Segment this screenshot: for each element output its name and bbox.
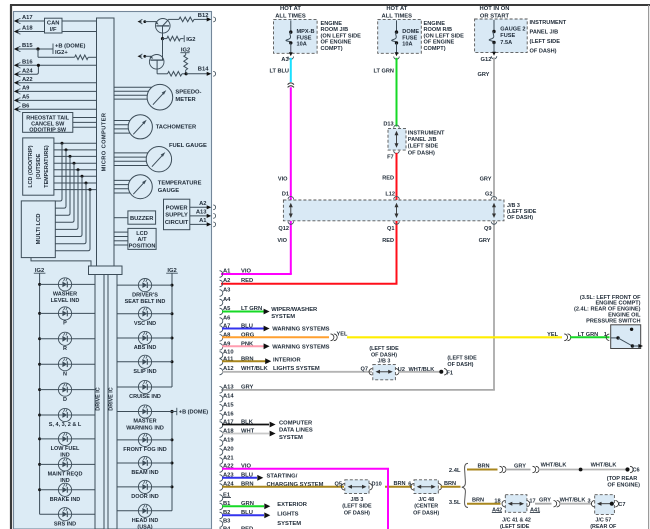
wire A9 to micro computer xyxy=(19,90,97,92)
wire VIO down to J/B 3 xyxy=(290,87,292,200)
svg-text:B14: B14 xyxy=(198,66,209,72)
svg-text:A22: A22 xyxy=(22,77,33,83)
svg-text:Q9: Q9 xyxy=(484,226,491,232)
svg-text:R: R xyxy=(63,346,67,352)
svg-text:(LEFT SIDE: (LEFT SIDE xyxy=(447,355,477,361)
inline connector chevrons xyxy=(288,83,294,85)
svg-text:A9: A9 xyxy=(22,86,30,92)
svg-text:BRN: BRN xyxy=(472,498,484,504)
splice F1 xyxy=(439,370,443,374)
svg-text:OF ENGINE: OF ENGINE xyxy=(321,40,352,46)
svg-text:(ON LEFT SIDE: (ON LEFT SIDE xyxy=(424,33,465,39)
transistor Q1 xyxy=(156,19,171,34)
svg-text:TEMPERATURE): TEMPERATURE) xyxy=(44,145,50,188)
svg-text:GAUGE: GAUGE xyxy=(158,188,179,194)
indicator LED SRS IND xyxy=(40,513,59,515)
svg-text:ROOM J/B: ROOM J/B xyxy=(321,27,349,33)
svg-text:OF ENGINE: OF ENGINE xyxy=(424,40,455,46)
svg-text:10A: 10A xyxy=(402,41,412,47)
svg-text:OF DASH): OF DASH) xyxy=(507,215,533,221)
engine room R/B box (fuse DOME) xyxy=(378,19,422,53)
svg-text:IG2: IG2 xyxy=(186,37,195,43)
svg-text:A17: A17 xyxy=(22,15,33,21)
indicator LED VSC IND xyxy=(171,312,174,315)
svg-text:RED: RED xyxy=(382,176,394,182)
svg-text:ODO/TRIP SW: ODO/TRIP SW xyxy=(29,127,67,133)
wire A8 ORG xyxy=(222,336,329,338)
svg-text:OF DASH): OF DASH) xyxy=(408,150,435,156)
wire B2 BLU xyxy=(222,514,264,516)
svg-text:SYSTEM: SYSTEM xyxy=(277,521,301,527)
svg-text:POWER: POWER xyxy=(166,205,189,211)
indicator LED S, 4, 3, 2 & L xyxy=(38,414,41,417)
svg-text:WARNING SYSTEMS: WARNING SYSTEMS xyxy=(272,345,329,351)
wire MULTI LCD output 2 xyxy=(55,150,66,208)
svg-text:S, 4, 3, 2 & L: S, 4, 3, 2 & L xyxy=(49,422,82,428)
node LCD bus junction 1 xyxy=(61,142,64,145)
svg-text:LT GRN: LT GRN xyxy=(578,332,598,338)
node LCD bus junction 7 xyxy=(85,182,88,185)
wire GRY from fuse GAUGE 2 xyxy=(493,57,495,200)
wire RED through J/B 3 to pin A2 xyxy=(396,221,398,284)
resistor R2 (IG2) xyxy=(167,36,181,41)
svg-text:GRY: GRY xyxy=(514,464,526,470)
svg-text:WHT/BLK: WHT/BLK xyxy=(591,463,617,469)
wire A24 BRN to J/B 3 (Q5) xyxy=(222,486,344,488)
wires micro computer to TACHOMETER gauge xyxy=(114,120,140,122)
svg-text:LT BLU: LT BLU xyxy=(270,68,289,74)
svg-text:A21: A21 xyxy=(223,456,234,462)
wire LT BLU from fuse MPX-B xyxy=(290,58,292,82)
wire MULTI LCD output 5 xyxy=(55,170,78,230)
svg-text:J/C 57: J/C 57 xyxy=(595,517,611,523)
svg-text:Q1: Q1 xyxy=(387,226,394,232)
resistor on B15 branch xyxy=(75,55,89,60)
indicator LED N xyxy=(38,363,41,366)
svg-text:Q7: Q7 xyxy=(361,366,368,372)
wire LCD output 6 to micro computer xyxy=(54,175,97,177)
svg-text:CRUISE IND: CRUISE IND xyxy=(129,394,161,400)
gauge TACHOMETER xyxy=(128,115,152,139)
node LCD bus junction 5 xyxy=(77,168,80,171)
svg-text:MASTER: MASTER xyxy=(133,419,156,425)
wire WHT/BLK to ground point F1 xyxy=(398,371,440,373)
svg-text:A16: A16 xyxy=(223,412,234,418)
wire A11 BRN to interior lights system xyxy=(222,360,266,362)
indicator LED MAINT REQD IND xyxy=(38,463,41,466)
svg-text:WHT/BLK: WHT/BLK xyxy=(560,497,586,503)
svg-text:VSC IND: VSC IND xyxy=(134,321,156,327)
wire RED to J/B 3 xyxy=(396,153,398,200)
svg-text:ABS IND: ABS IND xyxy=(134,345,157,351)
svg-text:OR START: OR START xyxy=(480,13,510,19)
wire MULTI LCD output 8 xyxy=(55,190,90,251)
wires rheostat box to micro computer xyxy=(73,117,97,119)
J/B 3 pass-through pins xyxy=(491,197,497,200)
svg-text:RED: RED xyxy=(241,278,253,284)
svg-text:F1: F1 xyxy=(447,370,454,376)
indicator LED DOOR IND xyxy=(171,485,174,488)
svg-text:D: D xyxy=(63,397,67,403)
wire LCD output 5 to micro computer xyxy=(54,169,97,171)
svg-text:A20: A20 xyxy=(223,447,234,453)
fuse MPX-B 10A xyxy=(290,20,292,32)
svg-text:DOOR IND: DOOR IND xyxy=(131,494,159,500)
svg-text:SRS IND: SRS IND xyxy=(54,521,76,527)
svg-text:D13: D13 xyxy=(383,121,393,127)
svg-text:A2: A2 xyxy=(199,201,206,207)
wire CAN I/F to micro computer (A18) xyxy=(62,31,97,33)
svg-text:P: P xyxy=(63,321,67,327)
svg-text:(LEFT SIDE: (LEFT SIDE xyxy=(500,524,530,529)
svg-text:(LEFT SIDE: (LEFT SIDE xyxy=(369,346,399,352)
fuse DOME 10A xyxy=(396,20,398,32)
wire A7 BLU to warning systems xyxy=(222,328,264,330)
LCD (ODO/TRIP)(OUTSIDE TEMPERATURE) box xyxy=(23,138,54,195)
wire LCD output 1 to micro computer xyxy=(54,142,97,144)
svg-text:18: 18 xyxy=(494,498,500,504)
svg-text:A15: A15 xyxy=(223,402,234,408)
power supply circuit box xyxy=(164,199,190,230)
svg-text:BRN: BRN xyxy=(444,481,456,487)
wires micro computer to LCD A/T position xyxy=(114,231,128,233)
svg-text:(ON LEFT SIDE: (ON LEFT SIDE xyxy=(321,33,362,39)
resistor R4 vertical from IG2 xyxy=(185,53,187,55)
svg-text:F7: F7 xyxy=(387,154,394,160)
svg-text:CIRCUIT: CIRCUIT xyxy=(165,220,189,226)
wire B1 GRN to exterior lights system xyxy=(222,505,264,507)
svg-text:(USA): (USA) xyxy=(137,525,152,529)
bus IG2 left column xyxy=(39,273,41,514)
wire LT GRN from fuse DOME xyxy=(396,58,398,127)
splice xyxy=(579,468,583,472)
indicator LED P xyxy=(38,312,41,315)
instrument panel J/B box (fuse GAUGE 2) xyxy=(475,19,528,53)
wire A5 LT GRN to wiper/washer system xyxy=(222,311,264,313)
svg-text:HOT AT: HOT AT xyxy=(280,6,301,12)
svg-text:DATA LINES: DATA LINES xyxy=(279,428,313,434)
svg-text:A1: A1 xyxy=(223,269,231,275)
indicator LED R xyxy=(38,337,41,340)
wire A22 VIO overdraw at brown crossing xyxy=(387,469,389,529)
svg-text:BRN: BRN xyxy=(477,464,489,470)
svg-text:N: N xyxy=(63,371,67,377)
indicator LED FRONT FOG IND xyxy=(171,438,174,441)
svg-text:A5: A5 xyxy=(22,95,30,101)
svg-text:A4: A4 xyxy=(223,297,231,303)
connector bar below micro computer xyxy=(89,266,123,275)
svg-text:J/B 3: J/B 3 xyxy=(350,497,363,503)
svg-text:I/F: I/F xyxy=(50,27,57,33)
svg-text:GRY: GRY xyxy=(241,385,253,391)
svg-text:A/T: A/T xyxy=(137,237,147,243)
wire LCD output 2 to micro computer xyxy=(54,149,97,151)
wire LCD output 3 to micro computer xyxy=(54,155,97,157)
drive IC bar right xyxy=(108,275,117,529)
inline connector xyxy=(564,334,567,341)
micro computer U1 xyxy=(97,18,115,266)
J/C 57 connector xyxy=(591,501,594,507)
gauge FUEL GAUGE xyxy=(146,147,171,172)
svg-text:EXTERIOR: EXTERIOR xyxy=(277,502,307,508)
IG2 terminal tick xyxy=(183,35,185,42)
svg-text:FUEL GAUGE: FUEL GAUGE xyxy=(169,143,207,149)
svg-text:TEMPERATURE: TEMPERATURE xyxy=(158,181,202,187)
resistor R1 (B12) xyxy=(179,17,194,22)
svg-text:J/C 41 & 42: J/C 41 & 42 xyxy=(502,517,531,523)
svg-text:ALL TIMES: ALL TIMES xyxy=(275,13,306,19)
svg-text:(LEFT SIDE: (LEFT SIDE xyxy=(342,504,372,510)
svg-text:ALL TIMES: ALL TIMES xyxy=(382,13,413,19)
drive IC bar left xyxy=(95,275,104,529)
svg-text:COMPUTER: COMPUTER xyxy=(279,420,313,426)
svg-text:HOT IN ON: HOT IN ON xyxy=(480,6,510,12)
ground point C6 xyxy=(625,467,629,471)
svg-text:D1: D1 xyxy=(282,192,289,198)
svg-text:(REAR OF: (REAR OF xyxy=(590,524,617,529)
svg-text:GAUGE 2: GAUGE 2 xyxy=(500,27,525,33)
svg-text:(2.4L: REAR OF ENGINE): (2.4L: REAR OF ENGINE) xyxy=(574,306,641,312)
wire LCD output 7 to micro computer xyxy=(54,182,97,184)
svg-text:TACHOMETER: TACHOMETER xyxy=(156,125,197,131)
svg-text:LT GRN: LT GRN xyxy=(374,68,394,74)
svg-text:A10: A10 xyxy=(223,350,234,356)
svg-text:SEAT BELT IND: SEAT BELT IND xyxy=(125,299,166,305)
wire Q1 collector to resistor xyxy=(168,18,179,20)
wire B16 to micro computer xyxy=(19,64,97,66)
svg-text:FUSE: FUSE xyxy=(500,33,515,39)
svg-text:MULTI LCD: MULTI LCD xyxy=(36,214,42,245)
svg-text:G12: G12 xyxy=(481,57,492,63)
svg-text:RED: RED xyxy=(382,238,394,244)
svg-text:STARTING/: STARTING/ xyxy=(267,473,298,479)
wire BRN (3.5L) xyxy=(467,503,501,505)
svg-text:OF DASH): OF DASH) xyxy=(447,362,473,368)
svg-text:GRY: GRY xyxy=(480,176,492,182)
wire A24 joins B16 xyxy=(19,65,39,74)
wire CAN I/F to micro computer (A17) xyxy=(62,20,97,22)
node LCD bus junction 3 xyxy=(69,155,72,158)
LCD A/T position box xyxy=(128,228,156,249)
svg-text:Q5: Q5 xyxy=(335,481,342,487)
indicator LED SLIP IND xyxy=(171,360,174,363)
svg-text:VIO: VIO xyxy=(277,238,287,244)
svg-text:OF DASH): OF DASH) xyxy=(344,510,370,516)
J/C 48 connector xyxy=(411,484,414,490)
indicator LED ABS IND xyxy=(171,337,174,340)
wire BRN to J/C 48 xyxy=(385,486,412,488)
svg-text:YEL: YEL xyxy=(547,332,558,338)
MULTI LCD box xyxy=(21,201,55,258)
svg-text:D10: D10 xyxy=(372,481,382,487)
buzzer xyxy=(128,211,156,224)
CAN I/F interface box xyxy=(45,18,63,33)
node LCD bus junction 6 xyxy=(81,175,84,178)
svg-text:HOT AT: HOT AT xyxy=(386,6,407,12)
bus IG2 right column xyxy=(171,273,173,387)
svg-text:OF DASH): OF DASH) xyxy=(530,48,557,54)
wire WHT/BLK (3.5L) xyxy=(559,503,592,505)
svg-text:ROOM R/B: ROOM R/B xyxy=(424,27,453,33)
wire MULTI LCD output 7 xyxy=(55,183,86,244)
svg-text:WARNING SYSTEMS: WARNING SYSTEMS xyxy=(272,327,329,333)
svg-text:B6: B6 xyxy=(22,103,30,109)
wire MULTI LCD bottom output xyxy=(31,258,91,266)
indicator LED D xyxy=(38,388,41,391)
J/B 3 connector (Q5-D10) xyxy=(341,484,344,490)
gauge SPEEDO- xyxy=(147,84,173,110)
wires micro computer to SPEEDO- gauge xyxy=(114,86,160,88)
svg-text:OF DASH): OF DASH) xyxy=(413,510,439,516)
svg-text:LIGHTS: LIGHTS xyxy=(277,512,298,518)
node LCD bus junction 2 xyxy=(65,148,68,151)
svg-text:PANEL J/B: PANEL J/B xyxy=(408,137,437,143)
wire GRY (2.4L) xyxy=(505,469,531,471)
svg-text:10A: 10A xyxy=(297,41,307,47)
instrument panel J/B connector (D13-F7) xyxy=(394,125,400,128)
gauge TEMPERATURE xyxy=(128,175,152,199)
wire VIO through J/B 3 and to pin A1 xyxy=(290,221,292,274)
svg-text:+B (DOME): +B (DOME) xyxy=(55,43,86,49)
wire BRN (2.4L) xyxy=(467,469,498,471)
svg-text:PANEL J/B: PANEL J/B xyxy=(530,30,559,36)
wire B15 branch down xyxy=(37,49,39,57)
svg-text:INSTRUMENT: INSTRUMENT xyxy=(530,20,567,26)
svg-text:Q12: Q12 xyxy=(278,226,289,232)
svg-text:B15: B15 xyxy=(22,43,33,49)
node R3/R4 junction xyxy=(185,72,188,75)
wire GRY through J/B 3 to pin A13 xyxy=(493,221,495,390)
svg-text:A19: A19 xyxy=(223,438,234,444)
svg-text:WARNING IND: WARNING IND xyxy=(126,425,164,431)
wires micro computer to TEMPERATURE gauge xyxy=(114,179,140,181)
svg-text:ENGINE: ENGINE xyxy=(321,21,343,27)
svg-text:SYSTEM: SYSTEM xyxy=(271,314,295,320)
frame: right edge xyxy=(648,5,650,529)
wire B6 to micro computer xyxy=(19,108,97,110)
svg-text:(LEFT SIDE: (LEFT SIDE xyxy=(530,39,561,45)
svg-text:L12: L12 xyxy=(385,192,395,198)
node B16/A24 junction xyxy=(37,64,40,67)
svg-text:A18: A18 xyxy=(22,26,33,32)
wire A23 BLU to starting/charging system xyxy=(222,477,257,479)
svg-text:SYSTEM: SYSTEM xyxy=(279,435,303,441)
wire base input 1 xyxy=(138,20,142,24)
svg-text:2.4L: 2.4L xyxy=(449,468,461,474)
instrument cluster panel body xyxy=(14,12,212,529)
indicator LED DRIVER'S SEAT BELT IND xyxy=(171,284,174,287)
wire Q2 emitter to resistor xyxy=(157,73,167,75)
svg-text:BRAKE IND: BRAKE IND xyxy=(50,497,81,503)
J/C 41 &amp; 42 connector xyxy=(502,501,505,507)
wire WHT/BLK (2.4L) xyxy=(538,469,627,471)
wire A17 BLK to computer data lines xyxy=(222,424,269,426)
wire A9 PNK to warning systems xyxy=(222,345,264,347)
svg-text:DRIVE IC: DRIVE IC xyxy=(109,387,115,410)
+B (DOME) / IG2+ labels xyxy=(52,44,54,55)
svg-text:MPX-B: MPX-B xyxy=(297,29,315,35)
+B (DOME) tap xyxy=(170,410,173,413)
svg-text:BEAM IND: BEAM IND xyxy=(131,470,158,476)
svg-text:(LEFT SIDE: (LEFT SIDE xyxy=(408,144,439,150)
wire YEL to engine oil pressure switch xyxy=(347,336,562,338)
svg-text:INTERIOR: INTERIOR xyxy=(273,358,302,364)
svg-text:CAN: CAN xyxy=(47,20,60,26)
svg-text:SLIP IND: SLIP IND xyxy=(133,369,156,375)
svg-text:A24: A24 xyxy=(22,68,33,74)
indicator LED CRUISE IND xyxy=(117,386,138,388)
svg-text:A3: A3 xyxy=(281,57,289,63)
wire A22 VIO loop down xyxy=(222,469,388,529)
svg-text:VIO: VIO xyxy=(241,269,251,275)
wire BRN to brace xyxy=(441,486,461,488)
rheostat/cancel switch box xyxy=(23,113,73,133)
wire A17 to micro computer xyxy=(19,20,45,22)
svg-text:GRY: GRY xyxy=(479,238,491,244)
svg-text:DOME: DOME xyxy=(402,29,419,35)
ground point C7 xyxy=(610,502,614,506)
indicator LED MASTER WARNING IND xyxy=(117,411,138,413)
svg-text:B3: B3 xyxy=(223,519,231,525)
svg-text:FRONT FOG IND: FRONT FOG IND xyxy=(123,447,166,453)
svg-text:PRESSURE SWITCH: PRESSURE SWITCH xyxy=(586,319,640,325)
wire base input 2 xyxy=(138,55,142,59)
indicator LED BEAM IND xyxy=(171,462,174,465)
svg-text:A3: A3 xyxy=(223,288,231,294)
svg-text:ENGINE: ENGINE xyxy=(424,21,446,27)
indicator LED LOW FUEL IND xyxy=(38,437,41,440)
svg-text:MAINT REQD: MAINT REQD xyxy=(48,472,83,478)
svg-text:BRN: BRN xyxy=(393,481,405,487)
svg-text:A2: A2 xyxy=(223,278,230,284)
wire A12 WHT/BLK to J/B 3 xyxy=(222,371,372,373)
engine room J/B box (fuse MPX-B) xyxy=(274,19,318,53)
wire A18 to micro computer xyxy=(19,31,45,33)
svg-text:DRIVE IC: DRIVE IC xyxy=(96,387,102,410)
svg-text:J/B 3: J/B 3 xyxy=(378,358,391,364)
svg-text:WHT/BLK: WHT/BLK xyxy=(541,463,567,469)
svg-text:FUSE: FUSE xyxy=(297,35,312,41)
svg-text:(TOP REAR: (TOP REAR xyxy=(607,476,638,482)
svg-text:(OUTSIDE: (OUTSIDE xyxy=(36,153,42,179)
pin A13 (power supply, cluster right edge) xyxy=(190,215,208,217)
svg-text:METER: METER xyxy=(175,97,196,103)
svg-text:A14: A14 xyxy=(223,394,234,400)
svg-text:+B (DOME): +B (DOME) xyxy=(179,410,209,416)
indicator LED BRAKE IND xyxy=(38,488,41,491)
indicator LED WASHER LEVEL IND xyxy=(38,283,41,286)
svg-text:FUSE: FUSE xyxy=(402,35,417,41)
wire resistor R1 to pin B12 xyxy=(194,18,208,20)
svg-text:SPEEDO-: SPEEDO- xyxy=(175,90,201,96)
resistor R3 (B14) xyxy=(168,72,182,77)
svg-text:A1: A1 xyxy=(199,218,207,224)
svg-text:SUPPLY: SUPPLY xyxy=(165,213,188,219)
frame: outer border xyxy=(10,5,12,529)
svg-text:WASHER: WASHER xyxy=(53,292,77,298)
svg-text:LCD (ODO/TRIP): LCD (ODO/TRIP) xyxy=(28,145,34,187)
node Q1 emitter junction xyxy=(161,37,164,40)
svg-text:J/C 48: J/C 48 xyxy=(418,497,434,503)
wires micro computer to FUEL GAUGE gauge xyxy=(114,152,159,154)
svg-text:IG2+: IG2+ xyxy=(55,50,68,56)
pin A1 (power supply, cluster right edge) xyxy=(190,223,208,225)
wire to pin B14 xyxy=(186,73,208,75)
indicator LED HEAD IND (USA) xyxy=(117,510,138,512)
wire MULTI LCD output 3 xyxy=(55,156,70,215)
bus +B (DOME) right column xyxy=(171,412,173,511)
svg-text:17: 17 xyxy=(529,498,535,504)
